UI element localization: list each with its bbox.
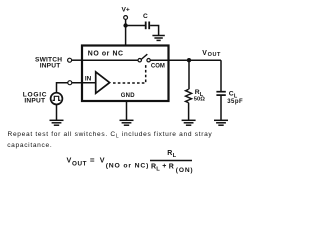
svg-text:50Ω: 50Ω [194, 96, 205, 102]
formula fraction bar [150, 160, 192, 162]
svg-text:INPUT: INPUT [24, 98, 45, 105]
wire CL to ground [220, 95, 222, 120]
svg-text:V: V [100, 156, 105, 165]
wire GND pin to ground [126, 101, 128, 120]
terminal V+ [124, 16, 128, 20]
switch lever [141, 54, 147, 59]
svg-text:V+: V+ [122, 7, 130, 14]
switch IC box U1 [82, 46, 169, 102]
ground (RL) [182, 120, 196, 125]
svg-text:=: = [90, 156, 95, 165]
wire IN terminal to buffer [72, 82, 96, 84]
svg-text:NO or NC: NO or NC [88, 51, 124, 58]
svg-text:+: + [162, 163, 166, 170]
dashed control line [113, 63, 146, 83]
svg-text:IN: IN [85, 75, 92, 82]
buffer amplifier [96, 72, 110, 93]
ground (GND pin) [120, 120, 134, 125]
resistor RL [186, 89, 192, 102]
wire COM to box edge [150, 59, 168, 61]
wire COM to output node [169, 59, 222, 61]
svg-text:OUT: OUT [72, 161, 87, 168]
wire capacitor C to ground [150, 26, 159, 36]
wire node to capacitor CL [220, 60, 222, 91]
svg-text:INPUT: INPUT [40, 63, 61, 70]
ground (CL) [214, 120, 228, 125]
svg-text:R: R [167, 150, 172, 157]
svg-text:L: L [156, 167, 160, 173]
ground (logic input) [50, 120, 64, 125]
wire RL to ground [188, 103, 190, 120]
wire pulse source to IN terminal [57, 83, 68, 93]
capacitor C plates [145, 22, 147, 30]
svg-text:capacitance.: capacitance. [7, 142, 52, 149]
junction dot output node [187, 58, 191, 62]
terminal switch input [68, 58, 72, 62]
svg-text:L: L [173, 153, 177, 159]
svg-text:COM: COM [151, 63, 165, 69]
svg-text:(NO or NC): (NO or NC) [106, 162, 150, 169]
wire pulse source to ground [56, 105, 58, 121]
svg-text:(ON): (ON) [176, 167, 194, 174]
junction dot on V+ wire [123, 23, 127, 27]
capacitor CL [216, 91, 225, 93]
wire junction to capacitor C [126, 25, 145, 27]
wire NO to switch pole [83, 59, 138, 61]
switch throw contact [147, 59, 150, 62]
ground (top, near C) [152, 36, 164, 41]
svg-text:V: V [202, 50, 207, 57]
switch pole contact [138, 59, 141, 62]
svg-text:V: V [67, 156, 72, 165]
wire node to resistor RL [188, 60, 190, 89]
wire V+ down to box top [125, 19, 127, 45]
terminal logic/IN [68, 81, 72, 85]
pulse source (logic input) [51, 93, 63, 105]
svg-text:35pF: 35pF [227, 99, 243, 105]
svg-text:OUT: OUT [208, 52, 221, 58]
svg-text:C: C [143, 13, 148, 20]
wire switch input to box [72, 59, 82, 61]
svg-text:R: R [169, 163, 174, 170]
svg-text:GND: GND [121, 93, 135, 99]
